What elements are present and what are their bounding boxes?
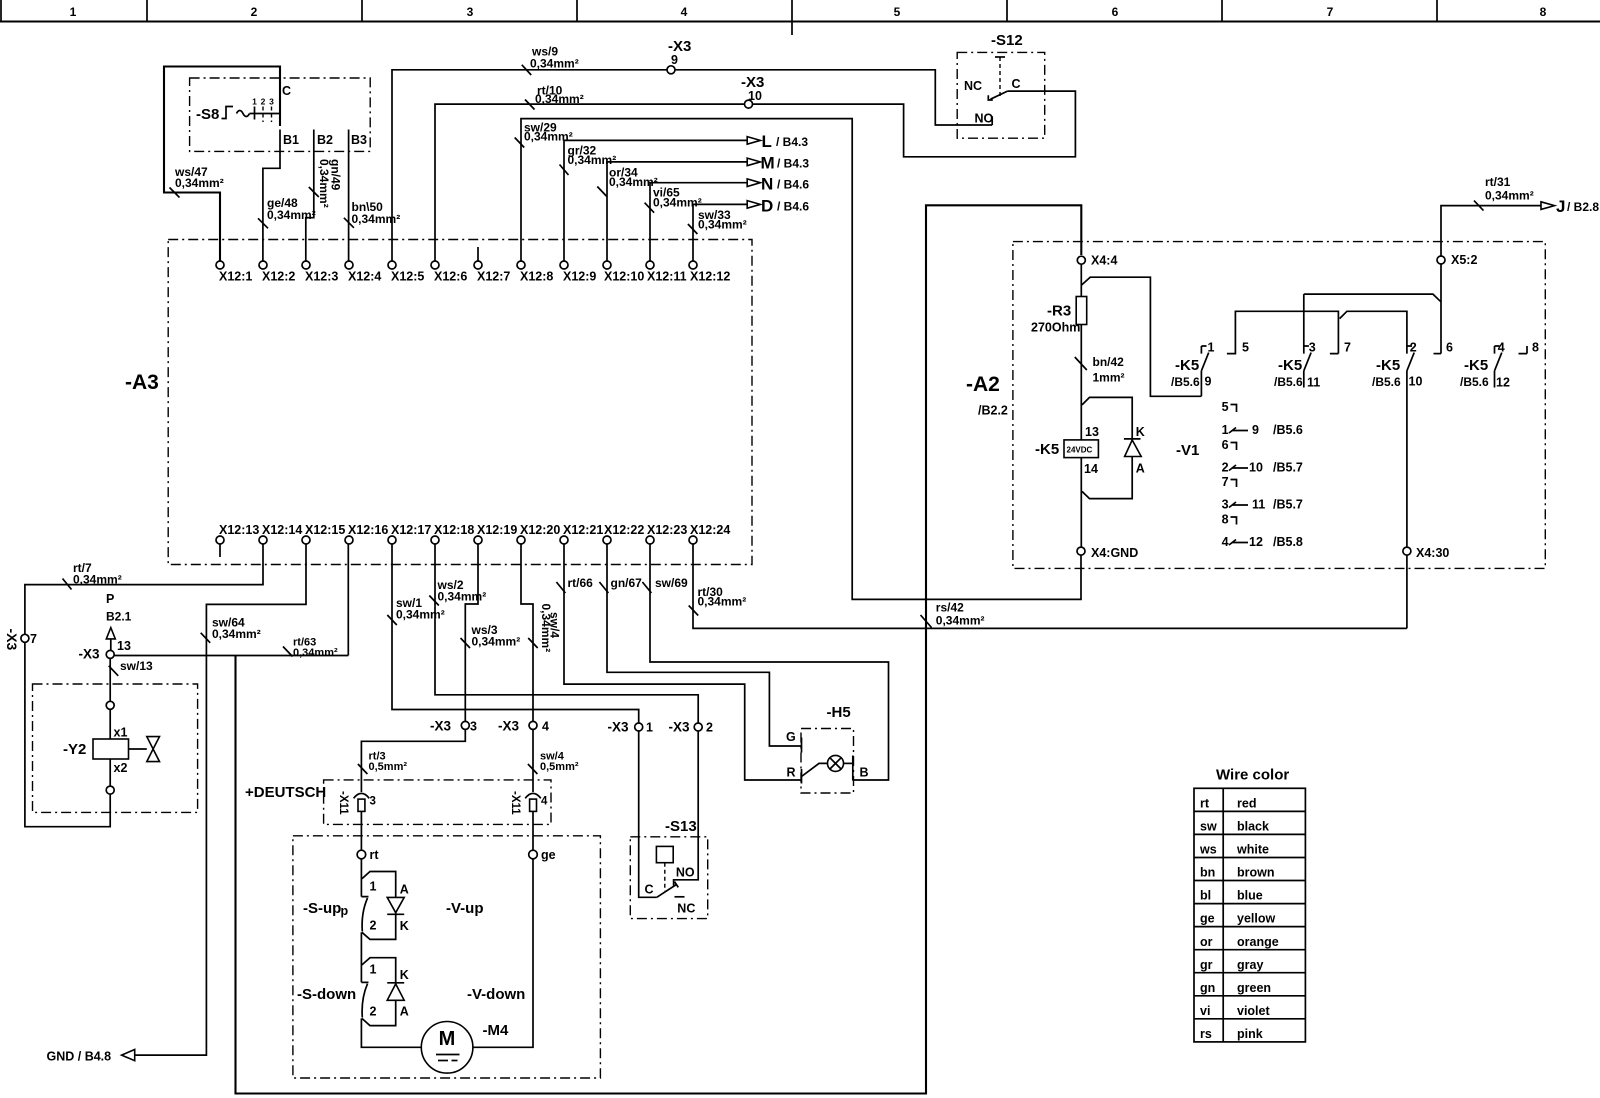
wire loop from rt/63 node to X4:4 (236, 205, 1082, 1093)
svg-text:/B5.6: /B5.6 (1273, 423, 1303, 437)
svg-text:1: 1 (370, 963, 377, 977)
terminal X12:24 (689, 536, 697, 544)
contact -K5 3/11 (1304, 346, 1309, 354)
pin ge (529, 850, 538, 859)
svg-text:-S8: -S8 (196, 106, 219, 123)
svg-text:0,34mm²: 0,34mm² (1485, 189, 1534, 203)
svg-text:5: 5 (894, 5, 901, 19)
terminal X4:30 (1403, 547, 1411, 555)
svg-text:/B5.7: /B5.7 (1273, 461, 1303, 475)
svg-text:0,34mm²: 0,34mm² (267, 208, 316, 222)
svg-text:gr: gr (1200, 958, 1213, 972)
svg-text:A: A (400, 1005, 409, 1019)
svg-text:X12:3: X12:3 (305, 270, 338, 284)
svg-text:12: 12 (1496, 376, 1510, 390)
svg-text:-X11: -X11 (337, 791, 349, 815)
svg-text:-K5: -K5 (1376, 357, 1400, 374)
svg-text:X5:2: X5:2 (1451, 253, 1477, 267)
svg-text:A: A (1136, 462, 1145, 476)
svg-text:5: 5 (1242, 341, 1249, 355)
terminal X5:2 (1437, 256, 1445, 264)
svg-text:/ B2.8: / B2.8 (1567, 200, 1599, 214)
terminal X12:21 (560, 536, 568, 544)
svg-text:12: 12 (1249, 535, 1263, 549)
bus pin 3 to pin 6 (1304, 294, 1441, 346)
svg-text:rt: rt (370, 848, 380, 862)
svg-text:ge: ge (541, 848, 556, 862)
motor -M4 (421, 1022, 473, 1074)
svg-text:/B5.6: /B5.6 (1372, 375, 1401, 389)
terminal -X3:1 (635, 723, 643, 731)
svg-text:4: 4 (681, 5, 688, 19)
svg-text:p: p (341, 904, 349, 918)
svg-text:B: B (860, 766, 869, 780)
svg-text:-S12: -S12 (991, 32, 1023, 49)
svg-text:ge: ge (1200, 912, 1215, 926)
wire ge pin to motor (473, 859, 533, 1048)
svg-text:Wire color: Wire color (1216, 767, 1289, 784)
svg-text:NC: NC (964, 79, 982, 93)
-H5 pin B (852, 756, 854, 781)
stub above X12:7 (477, 247, 479, 261)
svg-text:4: 4 (541, 796, 548, 808)
svg-text:14: 14 (1084, 462, 1098, 476)
svg-text:X12:15: X12:15 (305, 523, 345, 537)
terminal -X3:13 (106, 650, 114, 658)
diode -V1 branch across coil (1082, 397, 1132, 498)
svg-text:/B2.2: /B2.2 (978, 404, 1008, 418)
contact -K5 2/10 (1407, 346, 1412, 354)
wire sw/64 from X12:15 to GND / B4.8 (135, 544, 306, 1055)
wire gn/67 from X12:22 to -H5 G (607, 544, 802, 746)
wire sw/29 from X12:8 to X4:GND (521, 119, 1081, 600)
ruler tick 4|5 long (791, 0, 793, 35)
+DEUTSCH dash-dot box (324, 780, 551, 825)
svg-text:1: 1 (370, 880, 377, 894)
svg-text:vi: vi (1200, 1004, 1210, 1018)
wire B3 bn\50 to X12:4 (348, 130, 350, 262)
svg-text:K: K (1136, 425, 1145, 439)
svg-text:-X3: -X3 (4, 629, 20, 651)
terminal X12:3 (302, 261, 310, 269)
svg-text:0,34mm²: 0,34mm² (472, 635, 521, 649)
controller -A3 dash-dot box (168, 240, 752, 565)
terminal X12:19 (474, 536, 482, 544)
svg-text:-A2: -A2 (966, 373, 1000, 396)
terminal X12:17 (388, 536, 396, 544)
svg-text:2: 2 (251, 5, 258, 19)
wire gr/32 from X12:9 to arrow L (564, 140, 747, 261)
svg-text:D: D (761, 197, 773, 216)
pin 8 stub (1519, 346, 1528, 354)
svg-text:270Ohm: 270Ohm (1031, 321, 1080, 335)
terminal X12:23 (646, 536, 654, 544)
svg-text:1: 1 (646, 721, 653, 735)
svg-text:11: 11 (1307, 376, 1320, 390)
resistor R3 body (1076, 297, 1087, 325)
-S13 actuator square (656, 846, 673, 862)
svg-text:R: R (787, 766, 796, 780)
svg-text:11: 11 (1252, 498, 1265, 512)
svg-text:-M4: -M4 (483, 1022, 509, 1039)
svg-text:0,34mm²: 0,34mm² (212, 627, 261, 641)
svg-text:X12:23: X12:23 (647, 523, 687, 537)
diode -V-up branch (362, 872, 396, 940)
svg-text:B2: B2 (317, 133, 333, 147)
svg-text:2: 2 (1410, 341, 1417, 355)
svg-text:X12:4: X12:4 (348, 270, 381, 284)
svg-text:L: L (762, 132, 772, 151)
svg-text:G: G (786, 730, 796, 744)
wire rt/63 from -X3:13 to X12:16 (114, 544, 348, 656)
svg-text:-X3: -X3 (498, 719, 520, 734)
svg-text:rt/66: rt/66 (568, 576, 594, 590)
wire sw/1 from X12:17 to -X3:1 (392, 544, 639, 723)
terminal X12:9 (560, 261, 568, 269)
terminal X12:4 (345, 261, 353, 269)
svg-text:0,5mm²: 0,5mm² (369, 761, 408, 773)
svg-text:7: 7 (1222, 475, 1229, 489)
svg-text:K: K (400, 919, 409, 933)
svg-text:2: 2 (370, 1005, 377, 1019)
svg-text:0,34mm²: 0,34mm² (317, 159, 331, 208)
svg-text:-H5: -H5 (827, 704, 851, 721)
motor unit dash-dot box (293, 836, 601, 1078)
arrow M / B4.3 (747, 158, 760, 166)
svg-text:bn: bn (1200, 866, 1215, 880)
svg-text:sw/13: sw/13 (120, 659, 153, 673)
svg-text:3: 3 (1222, 498, 1229, 512)
ruler tick 1|2 (146, 0, 148, 22)
dash-dot box C of -S8 (190, 78, 371, 151)
svg-text:X12:17: X12:17 (391, 523, 431, 537)
svg-text:B2.1: B2.1 (106, 610, 132, 624)
wire rt/7 from X12:14 to -X3:7 and -Y2 return (25, 544, 263, 827)
svg-text:0,34mm²: 0,34mm² (293, 647, 338, 659)
svg-text:5: 5 (1222, 400, 1229, 414)
svg-text:3: 3 (470, 720, 477, 734)
wire -X3:2 down to -S13 NO (674, 731, 699, 886)
svg-text:sw: sw (1200, 820, 1217, 834)
switch -S13 dash-dot box (630, 837, 707, 919)
svg-text:red: red (1237, 797, 1256, 811)
svg-text:gn/67: gn/67 (611, 576, 643, 590)
wire label ws/47 (170, 188, 180, 198)
svg-text:K: K (400, 968, 409, 982)
terminal X4:GND (1077, 547, 1085, 555)
ruler tick 7|8 (1436, 0, 1438, 22)
svg-text:8: 8 (1222, 513, 1229, 527)
svg-text:/B5.7: /B5.7 (1273, 498, 1303, 512)
bus pin7 to contact 2 (1340, 311, 1407, 346)
svg-text:gray: gray (1237, 958, 1263, 972)
terminal -X3:7 (21, 634, 29, 642)
svg-text:B3: B3 (351, 133, 367, 147)
svg-text:x2: x2 (114, 761, 128, 775)
svg-text:X12:14: X12:14 (262, 523, 302, 537)
diode -V1 symbol (1124, 438, 1141, 440)
svg-text:C: C (282, 84, 291, 98)
svg-text:8: 8 (1532, 341, 1539, 355)
terminal -X3:2 (694, 723, 702, 731)
arrow GND / B4.8 (122, 1050, 135, 1061)
wire sw/4 from X12:20 to -X3:4 (521, 544, 533, 721)
-H5 pin G (801, 738, 803, 753)
svg-text:2: 2 (261, 97, 266, 107)
arrow J / B2.8 (1541, 202, 1555, 210)
svg-text:X12:7: X12:7 (477, 270, 510, 284)
pin 6 stub on X5:2 riser (1434, 353, 1442, 355)
diode -V-up symbol (387, 897, 404, 912)
svg-text:/B5.6: /B5.6 (1171, 375, 1200, 389)
svg-text:A: A (400, 883, 409, 897)
wire rt/3 from -X3:3 to -X11:3 (361, 729, 465, 792)
svg-text:4: 4 (542, 720, 549, 734)
svg-text:0,34mm²: 0,34mm² (539, 604, 553, 653)
svg-text:6: 6 (1446, 341, 1453, 355)
svg-text:X12:6: X12:6 (434, 270, 467, 284)
terminal X12:10 (603, 261, 611, 269)
svg-text:3: 3 (269, 97, 274, 107)
svg-text:X12:24: X12:24 (690, 523, 730, 537)
svg-text:24VDC: 24VDC (1067, 446, 1093, 455)
svg-text:X12:9: X12:9 (563, 270, 596, 284)
svg-text:brown: brown (1237, 866, 1275, 880)
lamp symbol (828, 755, 844, 771)
svg-text:6: 6 (1112, 5, 1119, 19)
svg-text:-K5: -K5 (1278, 357, 1302, 374)
svg-text:rs/42: rs/42 (936, 601, 964, 615)
terminal X12:7 (474, 261, 482, 269)
ruler tick 2|3 (361, 0, 363, 22)
terminal X12:5 (388, 261, 396, 269)
svg-text:C: C (644, 883, 653, 897)
svg-text:-X11: -X11 (509, 791, 521, 815)
svg-text:x1: x1 (114, 726, 128, 740)
svg-text:-A3: -A3 (125, 371, 159, 394)
svg-text:7: 7 (1344, 341, 1351, 355)
terminal X12:14 (259, 536, 267, 544)
svg-text:-X3: -X3 (608, 720, 630, 735)
svg-text:/ B4.3: / B4.3 (776, 135, 808, 149)
svg-text:0,34mm²: 0,34mm² (396, 608, 445, 622)
arrow D / B4.6 (747, 201, 760, 209)
wire -X3:1 down to -S13 C (639, 731, 657, 897)
pin 5 stub and bus to pin 7 (1227, 311, 1339, 353)
svg-text:NO: NO (975, 112, 994, 126)
svg-text:7: 7 (1327, 5, 1334, 19)
lamp -H5 dash-dot box (801, 729, 854, 794)
connector -X11:4 (525, 793, 541, 798)
svg-text:X12:19: X12:19 (477, 523, 517, 537)
wire vi/65 from X12:11 to arrow N (650, 183, 747, 261)
svg-text:-X3: -X3 (79, 647, 101, 662)
svg-text:X12:8: X12:8 (520, 270, 553, 284)
svg-text:X12:11: X12:11 (647, 270, 687, 284)
svg-text:rt: rt (1200, 797, 1210, 811)
svg-text:-S13: -S13 (665, 818, 697, 835)
svg-text:0,34mm²: 0,34mm² (175, 176, 224, 190)
svg-text:C: C (1012, 77, 1021, 91)
svg-text:0,34mm²: 0,34mm² (653, 196, 702, 210)
svg-text:0,34mm²: 0,34mm² (352, 212, 401, 226)
svg-text:4: 4 (1498, 341, 1505, 355)
svg-text:ws: ws (1199, 843, 1217, 857)
wire sw/69 from X12:23 to -H5 B (650, 544, 889, 780)
svg-text:-K5: -K5 (1035, 441, 1059, 458)
svg-text:yellow: yellow (1237, 912, 1275, 926)
terminal X12:6 (431, 261, 439, 269)
svg-text:3: 3 (1309, 341, 1316, 355)
wire ws/9 from X12:5 to -S12 NO (392, 70, 992, 261)
svg-text:10: 10 (748, 89, 762, 103)
wire B2 gn/49 to X12:3 (306, 130, 314, 262)
svg-text:2: 2 (1222, 461, 1229, 475)
svg-text:-X3: -X3 (430, 719, 452, 734)
svg-text:-S-down: -S-down (297, 986, 356, 1003)
svg-text:violet: violet (1237, 1004, 1270, 1018)
svg-text:-S-up: -S-up (303, 900, 341, 917)
terminal X12:20 (517, 536, 525, 544)
svg-text:P: P (106, 592, 114, 606)
svg-text:M: M (761, 154, 775, 173)
svg-text:X12:1: X12:1 (219, 270, 252, 284)
svg-text:-R3: -R3 (1047, 303, 1071, 320)
svg-text:X4:30: X4:30 (1416, 546, 1449, 560)
terminal X12:2 (259, 261, 267, 269)
svg-text:X12:2: X12:2 (262, 270, 295, 284)
svg-text:sw/69: sw/69 (655, 576, 688, 590)
svg-text:X12:20: X12:20 (520, 523, 560, 537)
-Y2 coil with pins x1 x2 (109, 709, 111, 786)
svg-text:7: 7 (30, 632, 37, 646)
svg-text:1: 1 (1208, 341, 1215, 355)
svg-text:J: J (1556, 197, 1565, 216)
svg-text:GND / B4.8: GND / B4.8 (47, 1050, 112, 1064)
svg-text:+DEUTSCH: +DEUTSCH (245, 784, 326, 801)
svg-text:8: 8 (1540, 5, 1547, 19)
switch -S8 enclosure / wire C to X12:1 (164, 67, 280, 262)
svg-text:-V-up: -V-up (446, 900, 484, 917)
svg-text:0,34mm²: 0,34mm² (438, 590, 487, 604)
svg-text:or: or (1200, 935, 1213, 949)
relay coil -K5 24VDC (1064, 440, 1098, 458)
wire sw/4 0,5 from -X3:4 to -X11:4 (532, 729, 534, 792)
svg-text:/B5.8: /B5.8 (1273, 535, 1303, 549)
pin rt (357, 850, 366, 859)
svg-text:-X3: -X3 (669, 720, 691, 735)
svg-text:pink: pink (1237, 1027, 1263, 1041)
svg-text:-V-down: -V-down (467, 986, 525, 1003)
svg-text:-K5: -K5 (1175, 357, 1199, 374)
arrow N / B4.6 (747, 179, 760, 187)
switch -S-up (361, 859, 368, 897)
terminal -X3:10 (745, 100, 753, 108)
svg-text:X4:GND: X4:GND (1091, 546, 1138, 560)
svg-text:black: black (1237, 820, 1269, 834)
svg-text:X12:18: X12:18 (434, 523, 474, 537)
wire ws/3 from X12:19 to -X3:3 (465, 544, 478, 721)
terminal X12:16 (345, 536, 353, 544)
svg-text:/ B4.3: / B4.3 (777, 157, 809, 171)
svg-text:3: 3 (370, 796, 376, 808)
diode -V-down symbol (387, 982, 404, 984)
valve symbol (bowtie) (129, 748, 147, 750)
svg-text:NC: NC (677, 902, 695, 916)
svg-text:13: 13 (117, 639, 131, 653)
wire sw/33 from X12:12 to arrow D (693, 204, 747, 261)
terminal X12:11 (646, 261, 654, 269)
svg-text:X12:10: X12:10 (604, 270, 644, 284)
svg-text:0,34mm²: 0,34mm² (530, 57, 579, 71)
terminal X12:13 (216, 536, 224, 544)
svg-text:green: green (1237, 981, 1271, 995)
wire rt/66 from X12:21 to -H5 R (564, 544, 802, 780)
contact -K5 1/9 (1201, 346, 1206, 354)
wire label rt/31 (1474, 201, 1484, 211)
svg-text:blue: blue (1237, 889, 1263, 903)
svg-text:/B5.6: /B5.6 (1460, 375, 1489, 389)
svg-text:bn/42: bn/42 (1093, 355, 1125, 369)
wire rs/42 from X12:24 to X4:30 (693, 544, 1407, 628)
terminal X12:8 (517, 261, 525, 269)
svg-text:13: 13 (1085, 425, 1099, 439)
svg-text:2: 2 (706, 721, 713, 735)
wire X4:30 down to rs/42 (1406, 555, 1408, 628)
svg-text:X12:13: X12:13 (219, 523, 259, 537)
svg-text:X12:12: X12:12 (690, 270, 730, 284)
svg-text:0,34mm²: 0,34mm² (524, 130, 573, 144)
svg-text:M: M (439, 1028, 456, 1050)
valve -Y2 dash-dot box (33, 684, 198, 812)
ruler tick 5|6 (1006, 0, 1008, 22)
wire X5:2 riser to J / B2.8 (1441, 206, 1541, 354)
wire -X11:4 to ge pin (532, 811, 534, 850)
wire sw/13 down into -Y2 (109, 658, 111, 701)
svg-text:10: 10 (1409, 375, 1423, 389)
-Y2 internal terminal circles (106, 701, 114, 709)
svg-text:9: 9 (671, 53, 678, 67)
branch to contact K5 1-9 (1081, 277, 1201, 396)
wire X4:4 down to resistor (1080, 264, 1082, 296)
svg-text:gn: gn (1200, 981, 1215, 995)
arrow L / B4.3 (747, 137, 760, 145)
svg-text:2: 2 (370, 919, 377, 933)
svg-text:white: white (1236, 843, 1269, 857)
svg-text:X12:16: X12:16 (348, 523, 388, 537)
svg-text:rs: rs (1200, 1027, 1212, 1041)
svg-text:6: 6 (1222, 438, 1229, 452)
svg-text:1: 1 (70, 5, 77, 19)
connector -X11:3 (354, 793, 370, 798)
ruler top border line (0, 20, 1600, 22)
svg-text:4: 4 (1222, 535, 1229, 549)
svg-text:1: 1 (252, 97, 257, 107)
ruler tick 6|7 (1221, 0, 1223, 22)
svg-text:0,34mm²: 0,34mm² (698, 595, 747, 609)
svg-text:0,34mm²: 0,34mm² (698, 218, 747, 232)
svg-text:-K5: -K5 (1464, 357, 1488, 374)
-S13 blade C to NO (657, 882, 679, 898)
svg-text:B1: B1 (283, 133, 299, 147)
svg-text:1: 1 (1222, 423, 1229, 437)
terminal X12:18 (431, 536, 439, 544)
svg-text:0,34mm²: 0,34mm² (936, 614, 985, 628)
svg-text:-V1: -V1 (1176, 442, 1199, 459)
svg-text:0,34mm²: 0,34mm² (535, 92, 584, 106)
stub below X12:13 (219, 544, 221, 557)
svg-text:X12:5: X12:5 (391, 270, 424, 284)
